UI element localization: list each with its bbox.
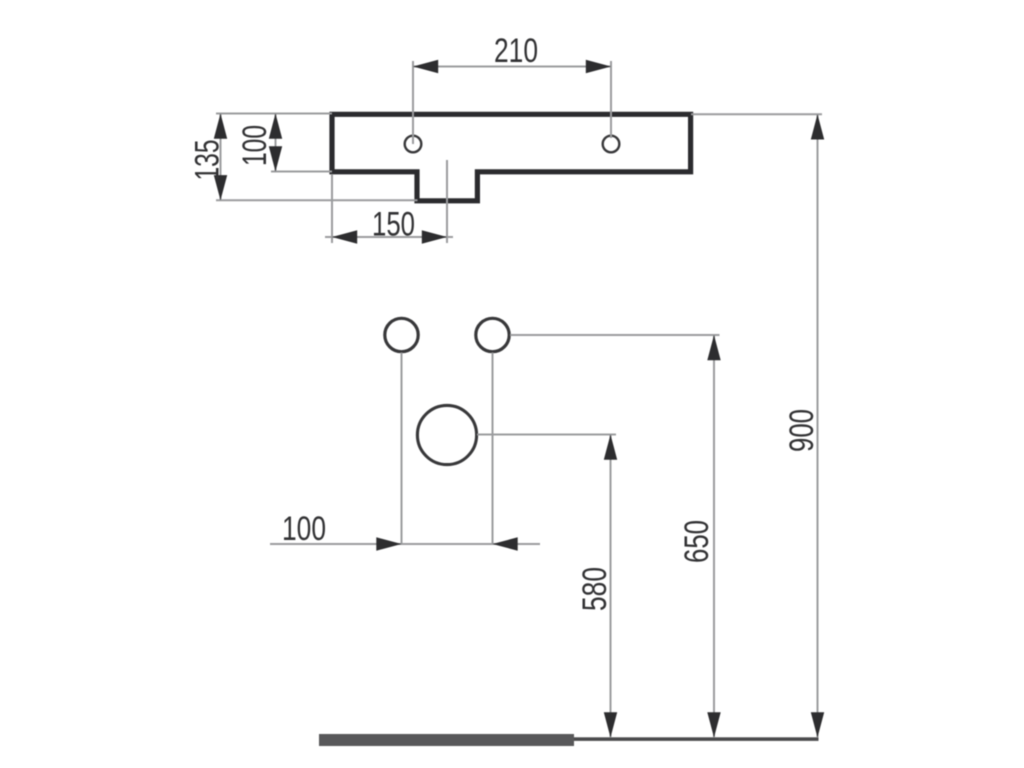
dimension 650 — [510, 335, 721, 738]
fixing hole right — [603, 136, 620, 153]
svg-text:150: 150 — [372, 206, 415, 244]
dimension 150 — [325, 160, 453, 244]
svg-text:650: 650 — [678, 520, 716, 563]
dimension 210 — [413, 32, 611, 144]
dimension 135 — [189, 114, 418, 201]
dimension 580 — [477, 435, 617, 738]
tap hole left — [385, 318, 418, 351]
svg-text:100: 100 — [236, 125, 274, 166]
fixing hole left — [405, 136, 422, 153]
dimension 100 vertical — [236, 114, 332, 172]
drain centerline — [446, 160, 448, 172]
dimension 900 — [691, 114, 824, 737]
mounting bracket outline — [332, 114, 691, 201]
floor slab bar — [319, 734, 574, 746]
drain hole — [417, 405, 476, 464]
tap hole right — [476, 318, 509, 351]
svg-text:900: 900 — [783, 409, 821, 452]
svg-text:135: 135 — [189, 140, 227, 181]
svg-text:580: 580 — [576, 567, 614, 611]
svg-text:210: 210 — [494, 32, 538, 70]
floor line — [574, 737, 819, 741]
svg-text:100: 100 — [282, 510, 326, 548]
dimension 100 horizontal — [270, 353, 540, 551]
